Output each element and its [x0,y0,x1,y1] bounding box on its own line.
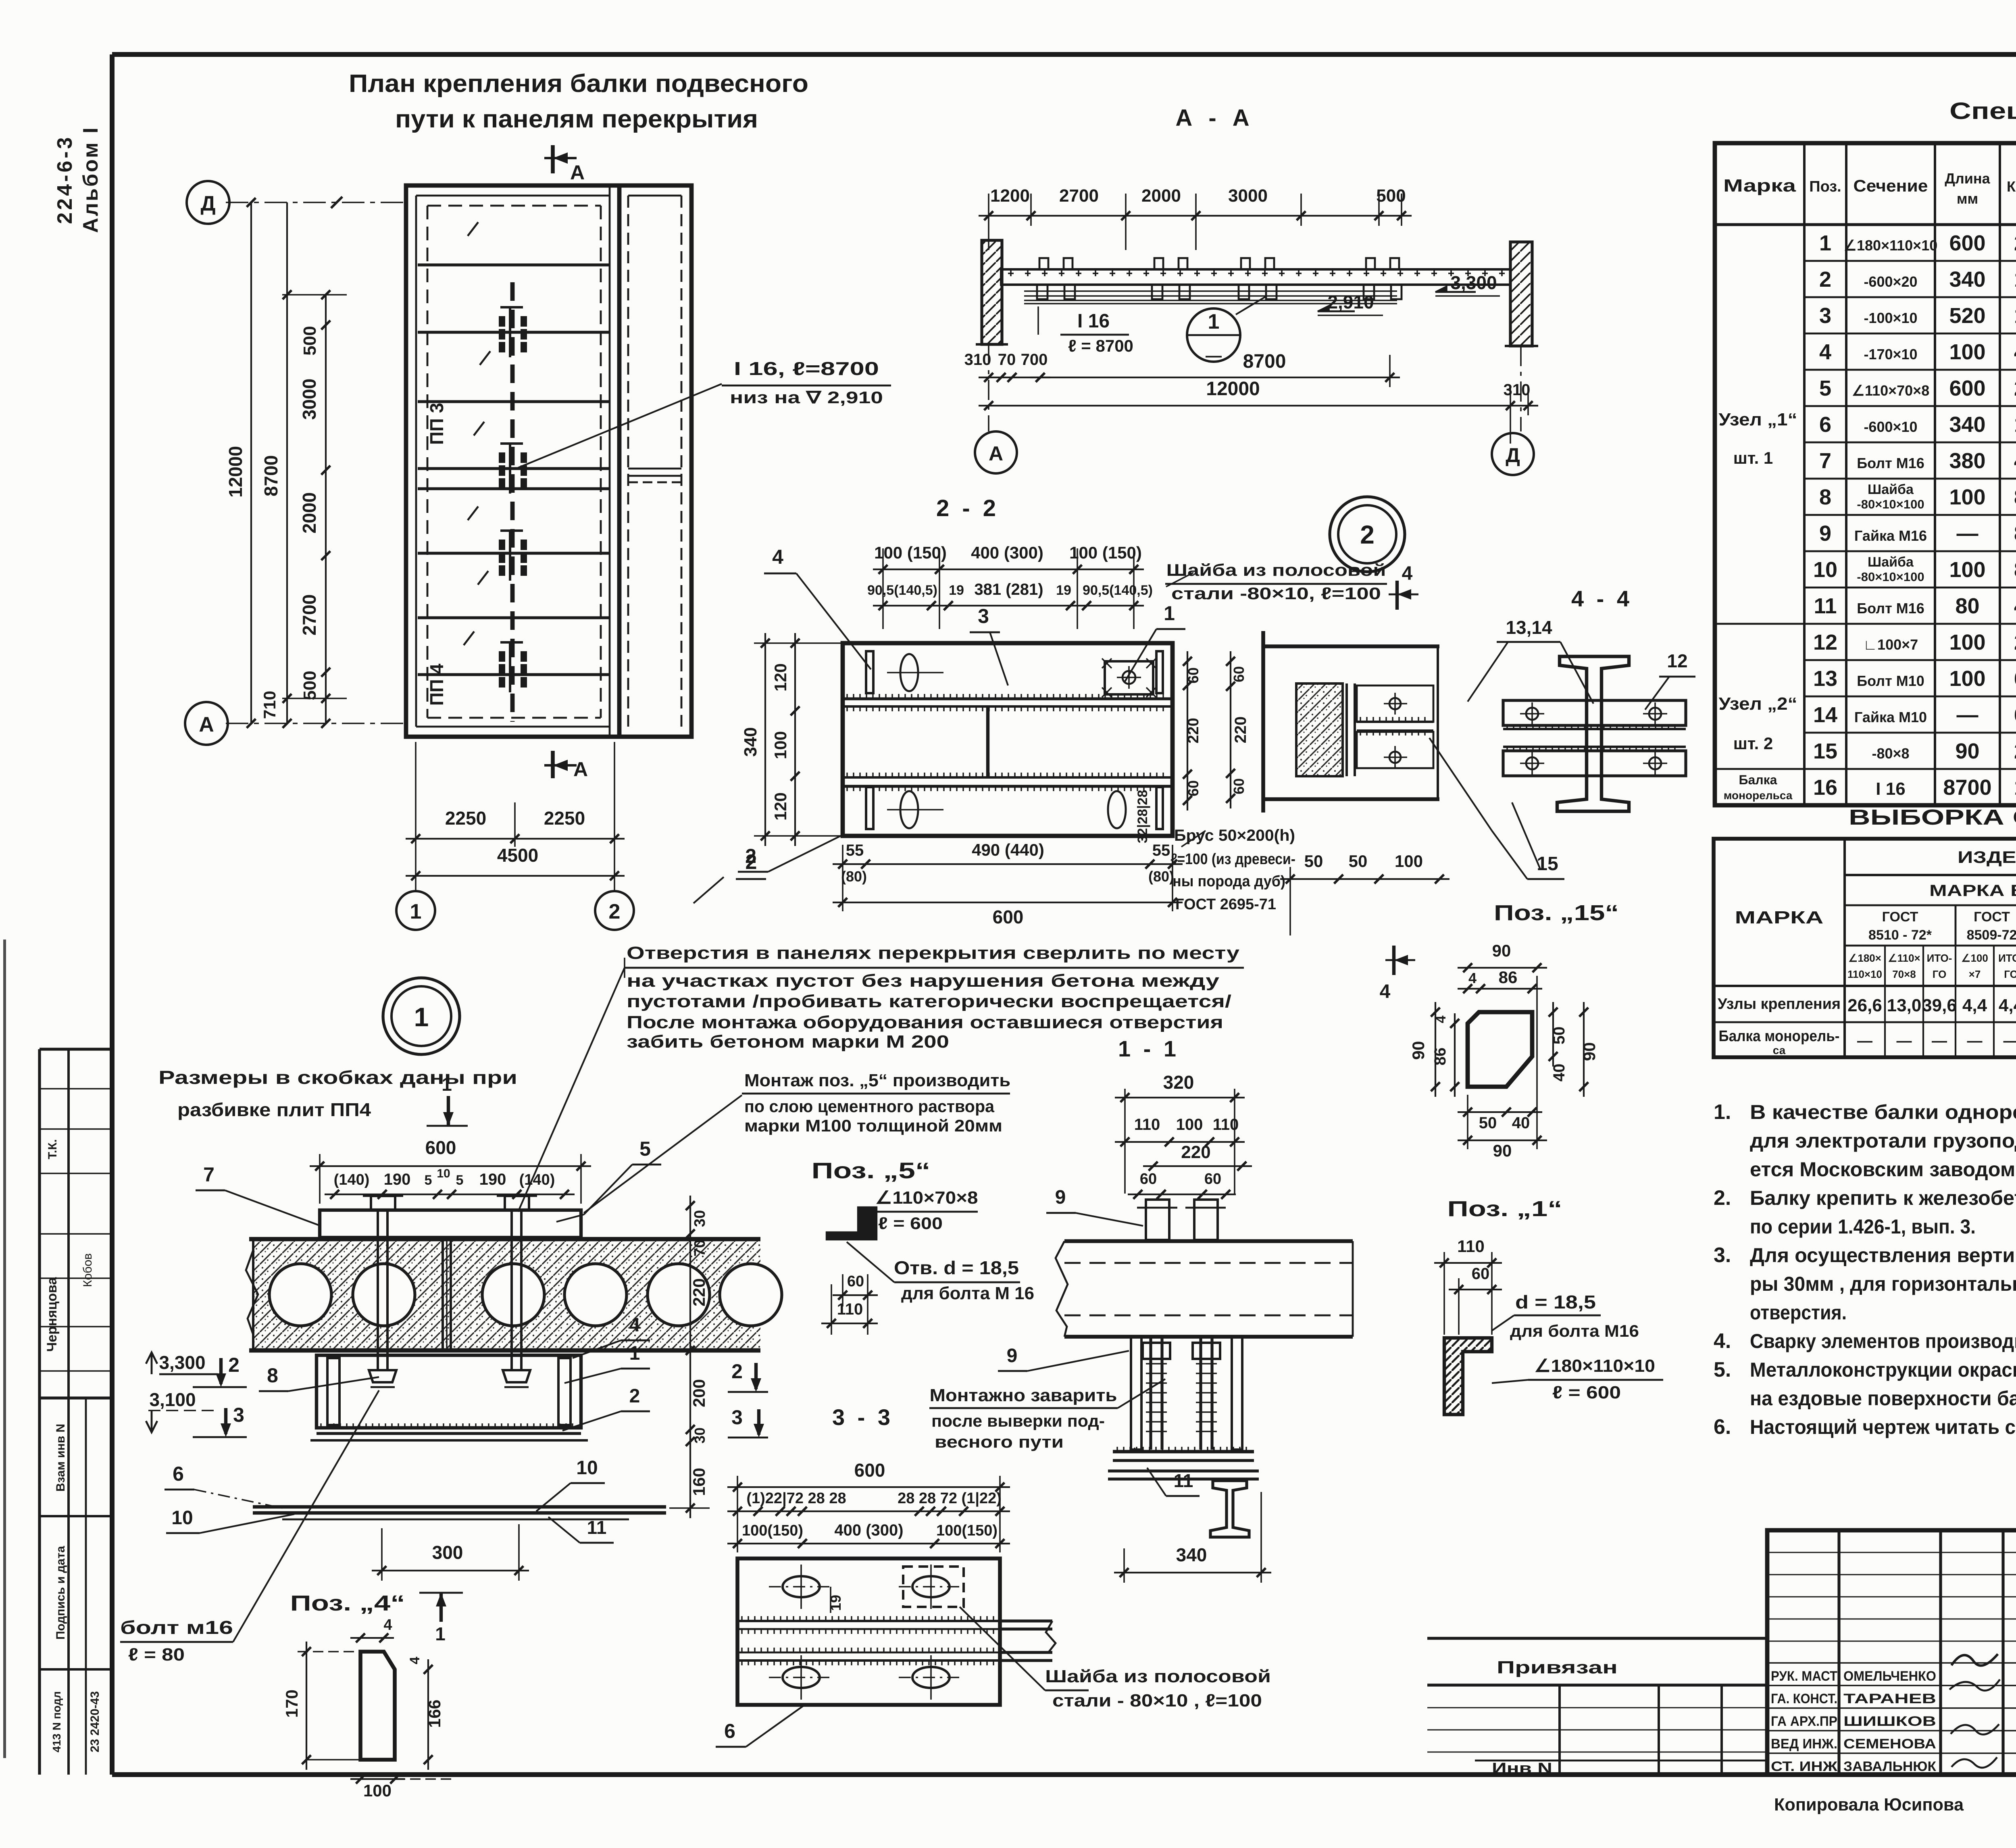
svg-text:ПП 4: ПП 4 [426,663,447,706]
svg-text:2: 2 [1819,267,1831,292]
section mark 1 top [447,1096,450,1125]
svg-text:4.: 4. [1714,1329,1731,1353]
svg-text:ОМЕЛЬЧЕНКО: ОМЕЛЬЧЕНКО [1843,1669,1936,1684]
svg-text:ℓ = 600: ℓ = 600 [1552,1383,1621,1402]
svg-text:-600×10: -600×10 [1864,419,1917,435]
svg-text:300: 300 [432,1542,463,1563]
svg-text:8700: 8700 [1243,351,1286,372]
grid bubble 2 [595,891,634,930]
svg-text:1: 1 [2014,413,2016,437]
svg-text:для болта М16: для болта М16 [1510,1321,1639,1340]
svg-text:СТ. ИНЖ: СТ. ИНЖ [1771,1759,1837,1774]
svg-text:ры 30мм , для горизонтальной р: ры 30мм , для горизонтальной рихтовки - … [1750,1273,2016,1295]
svg-text:забить бетоном марки М 200: забить бетоном марки М 200 [627,1032,949,1052]
left dimension 8700 [286,202,288,723]
svg-text:32|28|28: 32|28|28 [1135,790,1150,843]
uzel1 top plate pos5 [320,1210,581,1238]
svg-text:Взам инв N: Взам инв N [54,1424,67,1492]
svg-text:1: 1 [442,1074,452,1095]
svg-text:15: 15 [1813,739,1837,763]
svg-text:100 (150): 100 (150) [1069,543,1142,562]
svg-text:500: 500 [1376,186,1406,206]
3-3 slot holes [783,1576,820,1597]
svg-text:100: 100 [363,1781,392,1800]
svg-text:5: 5 [425,1173,432,1188]
svg-text:310: 310 [964,351,991,369]
pos4 plate sketch [360,1652,395,1760]
svg-text:ВЕД ИНЖ.: ВЕД ИНЖ. [1771,1736,1837,1752]
svg-text:∠110×70×8: ∠110×70×8 [1852,382,1929,399]
svg-text:×7: ×7 [1969,968,1981,980]
svg-text:ℓ=100 (из древеси-: ℓ=100 (из древеси- [1170,851,1295,868]
svg-text:Гайка М16: Гайка М16 [1854,527,1927,544]
svg-text:220: 220 [1185,718,1202,743]
svg-text:12: 12 [1667,650,1687,671]
svg-text:5: 5 [1819,376,1831,400]
svg-text:3,300: 3,300 [1450,272,1497,293]
svg-text:340: 340 [1949,413,1985,437]
svg-text:90: 90 [1493,1141,1512,1160]
svg-text:после выверки под-: после выверки под- [931,1411,1105,1430]
svg-text:224-6-3: 224-6-3 [53,135,77,224]
svg-text:для электротали грузоподъемно: для электротали грузоподъемностью 0,5т. … [1750,1129,2016,1152]
svg-text:8: 8 [1819,485,1831,509]
svg-text:ЗАВАЛЬНЮК: ЗАВАЛЬНЮК [1843,1759,1936,1774]
svg-text:ГОСТ: ГОСТ [1882,909,1918,925]
steel selection table [1714,839,2016,1057]
svg-text:Балка монорель-: Балка монорель- [1719,1028,1840,1045]
svg-text:4,4: 4,4 [1999,996,2016,1015]
svg-text:ℓ = 600: ℓ = 600 [878,1214,943,1233]
signatures (squiggles) [1951,1654,1998,1666]
svg-text:10: 10 [171,1507,193,1529]
svg-text:220: 220 [1232,717,1250,744]
svg-text:30: 30 [691,1427,708,1444]
svg-text:600: 600 [1949,376,1985,400]
svg-text:12: 12 [1813,630,1837,654]
svg-text:Брус 50×200(h): Брус 50×200(h) [1174,827,1295,844]
slab voids (circles) [269,1264,331,1326]
svg-text:4: 4 [1819,340,1831,364]
svg-text:60: 60 [1140,1171,1157,1188]
svg-text:(140): (140) [519,1171,555,1188]
svg-text:ℓ = 80: ℓ = 80 [128,1645,185,1665]
svg-text:3: 3 [233,1404,244,1426]
svg-text:4: 4 [1433,1015,1449,1023]
svg-text:3: 3 [1819,304,1831,328]
svg-text:Узлы крепления: Узлы крепления [1718,996,1841,1013]
svg-text:(140): (140) [334,1171,370,1188]
svg-text:ГОСТ 2695-71: ГОСТ 2695-71 [1175,896,1276,913]
svg-text:(80): (80) [841,868,867,885]
svg-text:90,5(140,5): 90,5(140,5) [867,583,937,598]
svg-text:600: 600 [1949,231,1985,255]
pos1 angle profile [1444,1338,1492,1415]
svg-text:3 - 3: 3 - 3 [832,1404,893,1430]
svg-text:70: 70 [998,351,1016,369]
svg-text:∠180×110×10: ∠180×110×10 [1534,1356,1655,1376]
svg-text:ГО: ГО [1933,968,1947,980]
svg-text:2: 2 [731,1360,743,1383]
section mark 1 bottom [439,1594,443,1622]
svg-text:8700: 8700 [1943,775,1991,800]
svg-text:—: — [1957,703,1979,727]
svg-text:I 16: I 16 [1876,779,1905,799]
svg-text:1: 1 [410,900,422,923]
svg-text:ПП 3: ПП 3 [426,403,447,445]
svg-text:710: 710 [260,691,279,719]
svg-text:340: 340 [1949,267,1985,292]
detail bubble 1 [1187,308,1240,362]
svg-text:ВЫБОРКА СТАЛИ НА ЛИСТ: ВЫБОРКА СТАЛИ НА ЛИСТ [1849,805,2016,829]
svg-text:Кол: Кол [2007,178,2016,195]
svg-text:80: 80 [1955,594,1979,618]
svg-text:2: 2 [2014,376,2016,400]
svg-text:—: — [1206,347,1222,365]
svg-text:Поз. „1“: Поз. „1“ [1447,1197,1562,1221]
svg-text:19: 19 [1056,583,1071,598]
svg-text:А: А [199,713,214,736]
svg-text:14: 14 [1813,703,1837,727]
specification table [1715,143,2016,805]
1-1 rail I-beam cross section below [1210,1481,1249,1537]
pos1 dims 110 60 [1434,1262,1502,1264]
svg-text:ется Московским заводом „Красн: ется Московским заводом „Красный металли… [1750,1158,2016,1181]
svg-text:МАРКА Вст.3 , КП 2 , ГОСТ: МАРКА Вст.3 , КП 2 , ГОСТ 380 - 71* [1929,882,2016,900]
svg-text:А - А: А - А [1175,105,1254,131]
svg-text:100: 100 [1395,852,1423,871]
svg-text:ИТО-: ИТО- [1927,952,1952,964]
detail bubble 1 (double circle) [383,978,460,1054]
svg-text:310: 310 [1504,381,1531,399]
svg-text:I 16, ℓ=8700: I 16, ℓ=8700 [734,358,879,379]
svg-text:30: 30 [691,1210,708,1227]
svg-text:Болт М10: Болт М10 [1857,673,1924,689]
2-2 plate assembly [843,643,1173,836]
svg-text:—: — [1957,521,1979,546]
leader from drilling note to uzel1 [518,968,625,1212]
ceiling panels under beam [1024,290,1397,292]
svg-text:190: 190 [479,1171,506,1188]
svg-text:110: 110 [837,1300,863,1318]
svg-text:2 - 2: 2 - 2 [936,495,999,521]
3-3 rail lines to right [1000,1619,1052,1622]
svg-text:2000: 2000 [1141,186,1181,206]
elevation 3.300 left [146,1352,157,1374]
svg-text:Балка: Балка [1739,773,1777,787]
svg-text:3: 3 [978,605,989,627]
1-1 bottom dim 340 [1114,1572,1271,1573]
svg-text:ИЗДЕЛИЯ ИЗ ПРОКАТНОЙ СТА: ИЗДЕЛИЯ ИЗ ПРОКАТНОЙ СТАЛИ , КГ [1958,847,2016,867]
svg-text:600: 600 [425,1137,456,1158]
left dimension chain 500-3000-2000-2700-500-710 [325,295,327,723]
svg-text:6: 6 [2014,703,2016,727]
svg-text:са: са [1773,1044,1786,1056]
svg-text:1: 1 [629,1343,640,1364]
svg-text:низ на ∇ 2,910: низ на ∇ 2,910 [730,388,883,407]
svg-text:2: 2 [2014,739,2016,763]
svg-text:2: 2 [2014,630,2016,654]
svg-text:-80×8: -80×8 [1872,745,1909,762]
svg-text:4: 4 [2014,594,2016,618]
svg-text:166: 166 [425,1700,444,1728]
svg-text:60: 60 [1231,778,1247,794]
svg-text:∠100: ∠100 [1961,952,1988,964]
svg-text:4: 4 [407,1656,423,1664]
svg-text:6: 6 [1819,413,1831,437]
svg-text:4: 4 [1380,981,1391,1002]
svg-text:600: 600 [993,906,1024,927]
svg-text:100: 100 [1949,667,1985,691]
svg-text:Поз.: Поз. [1809,178,1841,195]
svg-text:После монтажа оборудования о: После монтажа оборудования оставшиеся от… [627,1013,1223,1032]
svg-text:55: 55 [846,842,864,859]
svg-text:СЕМЕНОВА: СЕМЕНОВА [1843,1736,1936,1752]
svg-text:стали - 80×10 , ℓ=100: стали - 80×10 , ℓ=100 [1052,1691,1262,1710]
svg-text:шт. 2: шт. 2 [1733,734,1773,753]
svg-text:50: 50 [1479,1114,1497,1132]
svg-text:-100×10: -100×10 [1864,310,1917,326]
svg-text:3,300: 3,300 [159,1352,205,1373]
svg-text:6: 6 [2014,667,2016,691]
svg-text:Поз. „4“: Поз. „4“ [290,1591,405,1615]
svg-text:(1)22|72 28 28: (1)22|72 28 28 [746,1490,846,1507]
svg-text:Для осуществления вертикальной: Для осуществления вертикальной рихтовки … [1750,1244,2016,1267]
svg-text:болт м16: болт м16 [120,1617,233,1638]
svg-text:Т.К.: Т.К. [46,1139,59,1159]
3-3 plate [737,1558,1000,1705]
svg-text:8700: 8700 [260,455,281,496]
svg-text:2250: 2250 [445,808,486,829]
svg-text:Болт М16: Болт М16 [1857,455,1924,471]
axis A bubble [185,702,228,745]
svg-text:9: 9 [1007,1345,1018,1367]
svg-text:86: 86 [1431,1048,1449,1066]
axis A line [226,723,406,724]
svg-text:60: 60 [847,1273,864,1290]
svg-text:2: 2 [2014,231,2016,255]
svg-text:ГОСТ: ГОСТ [1974,909,2010,925]
svg-text:60: 60 [1204,1171,1221,1188]
svg-text:Монтажно заварить: Монтажно заварить [930,1385,1117,1405]
svg-text:5.: 5. [1714,1358,1731,1381]
plan inner dashed outline [427,206,429,718]
uzel1 channel assembly [317,1355,581,1428]
svg-text:60: 60 [1185,780,1202,796]
svg-text:19: 19 [949,583,964,598]
section mark A top [551,145,555,173]
svg-text:9: 9 [1819,521,1831,546]
1-1 hanger above beam [1146,1200,1169,1240]
svg-text:1: 1 [1164,602,1175,625]
svg-text:-600×20: -600×20 [1864,273,1917,290]
svg-text:3.: 3. [1714,1244,1731,1267]
svg-text:3,100: 3,100 [149,1389,196,1410]
svg-text:100 (150): 100 (150) [874,543,947,562]
svg-text:11: 11 [1814,594,1837,618]
svg-text:Шайба: Шайба [1868,482,1914,497]
svg-text:160: 160 [689,1468,708,1496]
svg-text:ШИШКОВ: ШИШКОВ [1843,1714,1936,1729]
svg-text:Черняцова: Черняцова [44,1277,60,1352]
svg-text:110: 110 [1134,1116,1160,1133]
2-2 slot holes and plates [866,651,873,693]
svg-text:8509-72: 8509-72 [1967,927,2016,943]
svg-text:-80×10×100: -80×10×100 [1857,497,1924,511]
svg-text:пустотами /пробивать категор: пустотами /пробивать категорически воспр… [627,992,1231,1011]
svg-text:∠110×: ∠110× [1888,952,1920,964]
svg-text:39,6: 39,6 [1922,996,1957,1015]
svg-text:-170×10: -170×10 [1864,346,1917,363]
svg-text:Длина: Длина [1945,170,1990,187]
svg-text:1: 1 [414,1002,429,1032]
2-2 right dims 60-220-60 and 32-28-28 [1187,651,1188,810]
1-1 vertical bolts below [1149,1337,1152,1450]
svg-text:2: 2 [629,1385,640,1407]
3-3 serrated lines [737,1620,1000,1622]
svg-text:90: 90 [1955,739,1979,763]
svg-text:Сварку элементов производить э: Сварку элементов производить электродами… [1750,1330,2016,1352]
svg-text:100: 100 [1949,485,1985,509]
svg-text:мм: мм [1957,190,1978,207]
svg-text:110: 110 [1457,1237,1485,1256]
svg-text:340: 340 [741,727,760,756]
1-1 vertical side plates [1131,1337,1141,1450]
svg-text:Балку крепить к железобетонным: Балку крепить к железобетонным плитам , … [1750,1187,2016,1209]
svg-text:5: 5 [639,1138,651,1160]
svg-text:10: 10 [576,1457,598,1479]
A-A top dimension chain [979,215,1412,217]
svg-text:стали -80×10, ℓ=100: стали -80×10, ℓ=100 [1171,584,1381,603]
monorail axis (dashed) [510,282,515,722]
svg-text:весного пути: весного пути [935,1432,1064,1451]
svg-text:15: 15 [1537,853,1558,875]
slab joint [442,1239,444,1350]
svg-text:5: 5 [456,1173,464,1188]
pos5 dims 60 110 [833,1294,878,1296]
svg-text:200: 200 [689,1379,708,1407]
svg-text:Монтаж поз. „5“ производить: Монтаж поз. „5“ производить [744,1071,1010,1090]
svg-text:90: 90 [1580,1042,1599,1061]
svg-text:1200: 1200 [990,186,1030,206]
svg-text:70×8: 70×8 [1892,968,1916,980]
svg-text:100: 100 [1949,340,1985,364]
svg-text:55: 55 [1152,842,1170,859]
section mark A bottom [551,751,555,778]
section mark 4 top [1395,581,1399,610]
axis D line [226,202,406,203]
svg-text:(80): (80) [1148,868,1174,885]
svg-text:—: — [1857,1033,1872,1050]
svg-text:1: 1 [2014,267,2016,292]
svg-text:2: 2 [1360,520,1375,549]
svg-text:50: 50 [1550,1027,1568,1045]
svg-text:разбивке плит ПП4: разбивке плит ПП4 [177,1099,371,1120]
left dimension 12000 [250,202,252,723]
axis D bubble [187,181,229,224]
monorail beam side view [1001,269,1510,285]
svg-text:1: 1 [1208,310,1220,333]
svg-text:Копировала Юсипова: Копировала Юсипова [1774,1795,1964,1815]
section mark 4 bottom [1392,946,1395,975]
svg-text:Сечение: Сечение [1854,176,1928,195]
svg-text:отверстия.: отверстия. [1750,1301,1847,1324]
A-A axis bubble D [1520,346,1522,431]
svg-text:11: 11 [587,1517,607,1538]
svg-text:100: 100 [1949,558,1985,582]
elevation 2.910 [1318,306,1329,311]
svg-text:340: 340 [1176,1544,1207,1565]
svg-text:РУК. МАСТ: РУК. МАСТ [1771,1669,1837,1684]
svg-text:А: А [573,758,588,781]
svg-text:1: 1 [2014,304,2016,328]
svg-text:60: 60 [1472,1265,1490,1283]
slab hanger bolts [377,1210,379,1371]
svg-text:1: 1 [435,1623,446,1644]
svg-text:2: 2 [228,1354,240,1376]
privyazan block [1427,1637,1767,1640]
3-3 dashed washer outline [903,1567,964,1607]
svg-text:1: 1 [2014,775,2016,800]
plan bottom dimension 2250+2250 [415,742,417,891]
1-1 monorail beam side view [1064,1239,1353,1243]
svg-text:Инв N: Инв N [1492,1760,1552,1777]
svg-text:9: 9 [1055,1187,1066,1208]
svg-text:Размеры в скобках даны при: Размеры в скобках даны при [158,1067,517,1088]
svg-text:—: — [1932,1033,1947,1050]
svg-text:Гайка М10: Гайка М10 [1854,709,1927,725]
svg-text:по слою цементного раствора: по слою цементного раствора [744,1097,995,1116]
svg-text:110×10: 110×10 [1847,968,1882,980]
svg-text:на участках пустот без нар: на участках пустот без нарушения бетона … [627,971,1220,991]
svg-text:13,0: 13,0 [1887,996,1922,1015]
svg-text:12000: 12000 [225,446,246,498]
svg-text:7: 7 [1819,449,1831,473]
detail bubble 2 (double circle) [1330,497,1405,572]
uzel1 rail below [253,1505,666,1508]
svg-text:2: 2 [609,900,621,923]
svg-text:ГО: ГО [2004,968,2016,980]
svg-text:100: 100 [771,731,790,759]
title block [1767,1530,2016,1775]
svg-text:Шайба из полосовой: Шайба из полосовой [1045,1667,1271,1686]
svg-text:8: 8 [267,1364,278,1387]
svg-text:Поз. „5“: Поз. „5“ [812,1158,931,1183]
svg-text:∠180×110×10: ∠180×110×10 [1844,237,1938,254]
svg-text:∠110×70×8: ∠110×70×8 [875,1188,978,1208]
svg-text:∠180×: ∠180× [1848,952,1881,964]
svg-text:1 - 1: 1 - 1 [1118,1036,1179,1061]
pos 15 plate sketch [1468,1012,1532,1087]
svg-text:2250: 2250 [544,808,585,829]
2-2 left dim 340 [764,633,766,846]
svg-text:3: 3 [731,1406,743,1429]
svg-text:монорельса: монорельса [1724,789,1793,802]
svg-text:400 (300): 400 (300) [834,1521,903,1539]
svg-text:2,910: 2,910 [1327,292,1374,313]
svg-text:ГА АРХ.ПР: ГА АРХ.ПР [1771,1714,1837,1729]
svg-text:Подпись и дата: Подпись и дата [54,1546,67,1640]
svg-text:по серии 1.426-1, вып. 3.: по серии 1.426-1, вып. 3. [1750,1215,1976,1238]
2-2 left dim chain 120-100-120 [794,633,796,846]
svg-text:4500: 4500 [497,845,538,866]
svg-text:13,14: 13,14 [1506,617,1552,638]
svg-text:Болт М16: Болт М16 [1857,600,1924,617]
svg-text:марки М100 толщиной 20мм: марки М100 толщиной 20мм [744,1116,1002,1135]
svg-text:I 16: I 16 [1077,310,1110,332]
svg-text:4: 4 [2014,340,2016,364]
right wall section [1510,242,1532,346]
